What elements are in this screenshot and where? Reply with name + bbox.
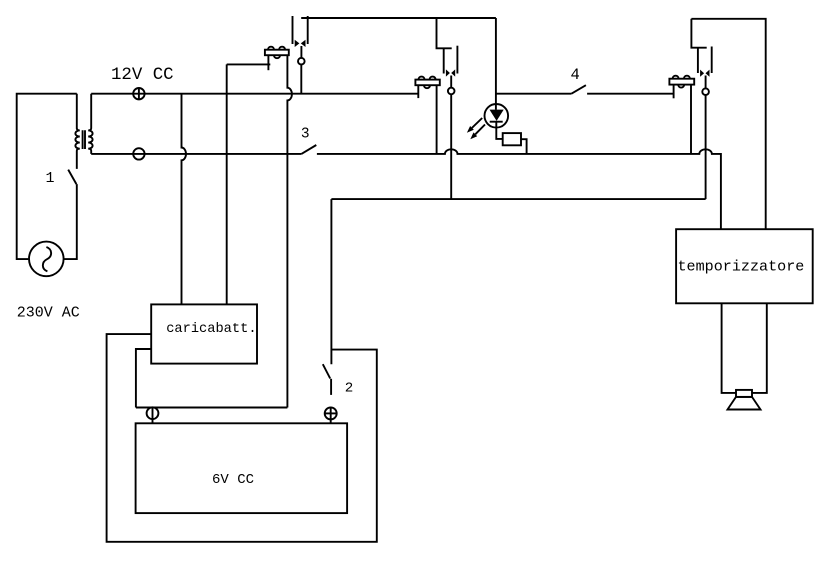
terminal battery plus xyxy=(325,407,337,419)
terminal -12V xyxy=(133,148,144,159)
switch 3 blade xyxy=(301,145,316,154)
relay contact K3 xyxy=(698,47,712,200)
wire coil1 left pin feed xyxy=(227,63,271,65)
wire drop to relay contact K2 xyxy=(437,18,452,48)
battery 6V xyxy=(136,423,348,513)
svg-text:2: 2 xyxy=(345,380,354,396)
box temporizzatore xyxy=(676,229,813,303)
relay contact K2 xyxy=(444,46,458,199)
wire primary top xyxy=(76,94,78,129)
svg-text:12V CC: 12V CC xyxy=(111,66,174,85)
svg-text:6V CC: 6V CC xyxy=(212,472,254,488)
wire caricabatt to battery minus xyxy=(136,349,151,408)
LED light arrows xyxy=(467,118,485,139)
svg-text:230V AC: 230V AC xyxy=(17,305,80,322)
wire coil1 right pin down with hop over +rail xyxy=(287,55,291,407)
wire top bus right xyxy=(691,19,765,229)
switch 2 blade xyxy=(323,364,330,378)
transformer T1 secondary winding xyxy=(88,94,92,154)
switch 4 blade xyxy=(571,85,586,94)
svg-text:3: 3 xyxy=(301,127,310,143)
wire switch 4 to coil K3 xyxy=(587,93,674,95)
wire drop to relay contact K3 xyxy=(691,19,706,48)
relay coil K2 xyxy=(415,77,439,154)
wire temporizzatore pins to speaker xyxy=(722,303,736,393)
wire AC loop right side xyxy=(64,184,77,259)
wire down to switch 2 xyxy=(330,199,332,364)
wire -12V rail right of switch 3 with hops xyxy=(317,149,721,229)
wire battery minus node xyxy=(136,407,288,409)
relay contact K1 xyxy=(293,16,308,94)
wire resistor to -rail xyxy=(521,139,527,154)
wire +12V rail xyxy=(91,93,418,95)
wire AC loop top-left xyxy=(17,94,77,259)
terminal +12V xyxy=(133,88,144,99)
wire top bus left xyxy=(301,17,496,19)
svg-text:temporizzatore: temporizzatore xyxy=(678,258,805,276)
speaker LS1 xyxy=(728,390,761,410)
wire outer loop from caricabatt xyxy=(107,334,377,542)
wire vertical from +rail to caricabatt with hop xyxy=(182,94,187,305)
LED D1 drop from top bus xyxy=(495,18,497,110)
wire LED node to switch 4 xyxy=(496,93,571,95)
relay coil K3 xyxy=(669,76,694,154)
AC source 230V xyxy=(29,242,64,277)
relay coil K1 xyxy=(265,47,289,70)
svg-text:1: 1 xyxy=(46,170,55,187)
terminal battery minus xyxy=(147,407,159,419)
LED D1 xyxy=(485,104,509,139)
wire -12V rail left of switch 3 xyxy=(91,153,301,155)
switch 1 blade xyxy=(68,170,76,185)
svg-text:4: 4 xyxy=(571,66,580,84)
wire node 199 horizontal xyxy=(331,198,705,200)
wire switch 2 lower xyxy=(330,379,332,395)
AC sine squiggle xyxy=(43,247,51,271)
svg-text:caricabatt.: caricabatt. xyxy=(166,322,256,337)
transformer T1 core xyxy=(83,130,85,149)
transformer T1 primary winding xyxy=(75,128,79,169)
wire vertical coil1 feed to caricabatt xyxy=(226,64,228,304)
resistor R1 xyxy=(503,133,521,145)
box caricabatt xyxy=(151,304,257,363)
